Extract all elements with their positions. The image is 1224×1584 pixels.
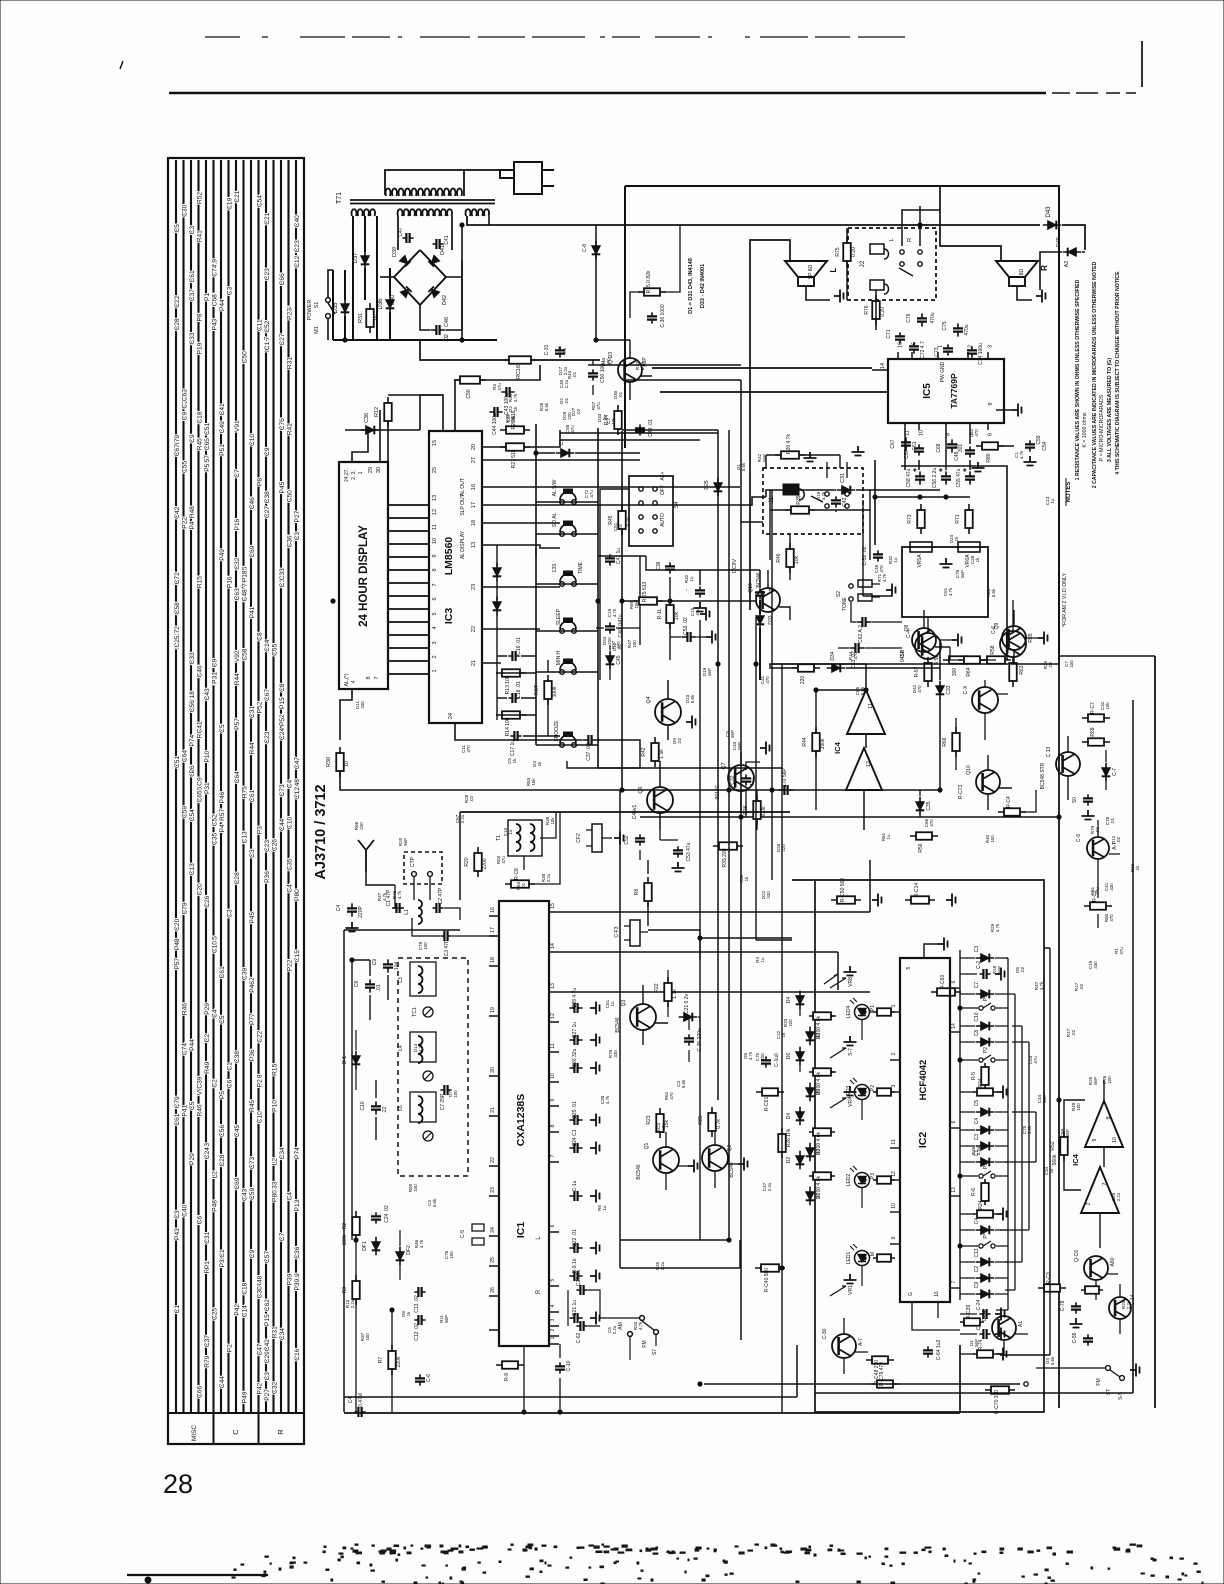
svg-text:C10: C10 bbox=[360, 1101, 366, 1110]
cap C-C31 .02 bbox=[559, 346, 561, 357]
resistor R-C39 bbox=[960, 1321, 984, 1323]
transistor Q7 bbox=[728, 765, 754, 791]
svg-text:R7: R7 bbox=[378, 1357, 384, 1364]
svg-text:C-62: C-62 bbox=[576, 1332, 582, 1343]
resistor R75 bbox=[846, 237, 848, 267]
svg-text:100: 100 bbox=[760, 1053, 765, 1061]
svg-text:R49: R49 bbox=[204, 1061, 211, 1073]
svg-text:C8: C8 bbox=[279, 683, 286, 692]
svg-text:VR5A: VR5A bbox=[917, 554, 923, 568]
svg-text:C9: C9 bbox=[249, 1249, 256, 1258]
svg-text:AM: AM bbox=[618, 1322, 624, 1330]
svg-text:.02: .02 bbox=[1116, 836, 1121, 843]
svg-text:1: 1 bbox=[891, 1004, 897, 1007]
transformer secondary winding 3 bbox=[466, 209, 490, 216]
svg-text:SNOOZE: SNOOZE bbox=[554, 720, 560, 742]
resistor R30 bbox=[339, 747, 341, 777]
svg-text:P22: P22 bbox=[286, 959, 293, 971]
svg-text:D39: D39 bbox=[392, 247, 398, 257]
svg-text:2.2u: 2.2u bbox=[563, 366, 568, 375]
right rail x1155 bbox=[1154, 656, 1156, 1408]
svg-text:1k: 1k bbox=[537, 761, 542, 766]
svg-text:P46: P46 bbox=[249, 981, 256, 993]
svg-text:TIME: TIME bbox=[578, 561, 584, 574]
component location table frame bbox=[168, 158, 304, 1444]
svg-text:R41: R41 bbox=[196, 230, 203, 242]
capacitor C70 on rail bbox=[778, 789, 793, 791]
svg-text:16: 16 bbox=[898, 342, 904, 348]
svg-text:C6: C6 bbox=[196, 1216, 203, 1225]
svg-text:FM: FM bbox=[1096, 1378, 1102, 1385]
bridge bottom wire bbox=[420, 305, 430, 330]
svg-text:.01: .01 bbox=[564, 397, 569, 404]
svg-text:C1: C1 bbox=[559, 439, 565, 446]
svg-text:C56 2.2u: C56 2.2u bbox=[932, 468, 938, 489]
resistor R35 and cap C42 bbox=[785, 509, 815, 511]
svg-text:C39: C39 bbox=[196, 1076, 203, 1088]
svg-text:8: 8 bbox=[366, 676, 372, 679]
svg-text:C58 47u: C58 47u bbox=[906, 468, 912, 487]
svg-text:D1: D1 bbox=[816, 1193, 822, 1200]
svg-text:M: M bbox=[870, 1252, 876, 1256]
svg-text:220: 220 bbox=[607, 637, 612, 645]
svg-text:C51: C51 bbox=[174, 756, 181, 768]
svg-text:C4: C4 bbox=[286, 779, 293, 788]
svg-text:P57: P57 bbox=[234, 718, 241, 730]
svg-text:.01: .01 bbox=[1095, 826, 1100, 833]
svg-text:C-24: C-24 bbox=[976, 1299, 982, 1310]
resistor R66 bbox=[955, 727, 957, 757]
svg-text:C-5: C-5 bbox=[460, 1230, 466, 1238]
svg-text:C32: C32 bbox=[730, 775, 736, 784]
svg-text:T1: T1 bbox=[496, 835, 502, 841]
svg-text:C74: C74 bbox=[211, 264, 218, 276]
capacitor C57 pin10 bbox=[918, 444, 920, 455]
cap C-C36 1000 bbox=[651, 312, 653, 323]
resistor R75b 513 bbox=[633, 600, 663, 602]
svg-text:C40: C40 bbox=[181, 1204, 188, 1216]
capacitor C18 .01 bbox=[508, 697, 519, 699]
svg-text:R15 0.82k: R15 0.82k bbox=[646, 270, 652, 293]
svg-text:5.6k: 5.6k bbox=[1050, 1356, 1055, 1365]
svg-text:.01: .01 bbox=[617, 643, 622, 650]
diode C31 bbox=[837, 489, 856, 491]
capacitor C41 bbox=[432, 243, 443, 245]
svg-text:12: 12 bbox=[891, 1171, 897, 1177]
svg-text:56P: 56P bbox=[737, 742, 742, 750]
wire bus below transformer bbox=[333, 339, 497, 341]
scatter clutter labels bbox=[702, 667, 712, 676]
svg-text:.02: .02 bbox=[1048, 661, 1053, 668]
right rail x1133 bbox=[1132, 700, 1134, 1300]
vertical rail x598 bbox=[597, 428, 599, 768]
svg-text:G: G bbox=[908, 1292, 914, 1296]
transistor Q3 af bbox=[630, 1004, 656, 1030]
capacitor C41b bbox=[609, 554, 611, 565]
svg-text:A2: A2 bbox=[1064, 261, 1070, 268]
diode DF2 bbox=[399, 1247, 401, 1266]
svg-text:C52: C52 bbox=[624, 835, 630, 844]
capacitor C4 220P bbox=[351, 903, 353, 916]
svg-text:C7 25P: C7 25P bbox=[440, 1093, 446, 1110]
svg-text:S1: S1 bbox=[314, 302, 320, 309]
svg-text:P80: P80 bbox=[271, 1190, 278, 1202]
svg-text:D33 - D42 IN4001: D33 - D42 IN4001 bbox=[700, 264, 706, 308]
transformer secondary winding 2 bbox=[398, 209, 453, 216]
svg-text:C36: C36 bbox=[364, 413, 370, 423]
svg-text:SLEEP: SLEEP bbox=[556, 608, 562, 625]
svg-text:6: 6 bbox=[432, 597, 438, 600]
svg-text:LM8560: LM8560 bbox=[443, 537, 455, 576]
svg-text:C45: C45 bbox=[234, 1125, 241, 1137]
svg-text:16: 16 bbox=[490, 907, 496, 913]
svg-text:1k: 1k bbox=[975, 557, 980, 562]
svg-text:1.5k: 1.5k bbox=[659, 749, 665, 759]
speaker L bbox=[785, 261, 827, 277]
capacitor C37 bbox=[582, 739, 597, 741]
svg-text:5.6k: 5.6k bbox=[991, 588, 996, 597]
resistor R12 bbox=[387, 397, 389, 427]
IC1 bottom caps bbox=[559, 1362, 561, 1373]
svg-text:C41: C41 bbox=[219, 403, 226, 415]
svg-text:C33: C33 bbox=[279, 568, 286, 580]
svg-text:330: 330 bbox=[1093, 961, 1098, 969]
svg-text:C56: C56 bbox=[219, 1125, 226, 1137]
svg-text:C58: C58 bbox=[241, 648, 248, 660]
svg-text:300: 300 bbox=[952, 668, 958, 677]
transistor Q16 BC546 bbox=[756, 588, 780, 612]
svg-text:C63: C63 bbox=[181, 389, 188, 401]
wires jack to speaker bbox=[847, 206, 940, 330]
svg-text:C18: C18 bbox=[241, 1282, 248, 1294]
svg-text:C40: C40 bbox=[294, 215, 301, 227]
capacitor C36b bbox=[669, 562, 671, 573]
IC5 pin row bottom bbox=[904, 423, 906, 430]
svg-text:2.2u: 2.2u bbox=[660, 1261, 665, 1270]
svg-text:100: 100 bbox=[632, 640, 637, 648]
svg-text:MISC: MISC bbox=[191, 1425, 198, 1442]
svg-text:C3: C3 bbox=[974, 1134, 980, 1141]
svg-text:DC9V: DC9V bbox=[732, 559, 738, 573]
svg-text:.01: .01 bbox=[562, 347, 567, 354]
svg-text:2 CAPACITANCE VALUES ARE INDI: 2 CAPACITANCE VALUES ARE INDICATED IN MI… bbox=[1092, 262, 1098, 489]
svg-text:C52: C52 bbox=[211, 814, 218, 826]
svg-text:IC4: IC4 bbox=[1071, 1153, 1080, 1166]
svg-text:C49 .01: C49 .01 bbox=[648, 419, 654, 437]
svg-text:C67: C67 bbox=[174, 444, 181, 456]
svg-text:1: 1 bbox=[938, 345, 944, 348]
resistor R26b bbox=[781, 1128, 783, 1158]
svg-text:56P: 56P bbox=[1065, 1129, 1070, 1137]
switch SLEEP bbox=[536, 630, 598, 632]
svg-text:C22: C22 bbox=[174, 295, 181, 307]
svg-text:C68: C68 bbox=[936, 443, 942, 452]
svg-text:47u: 47u bbox=[589, 490, 594, 498]
bottom mid components bbox=[871, 1383, 899, 1385]
svg-text:10k: 10k bbox=[794, 555, 800, 564]
wire IC3 pin21 bbox=[482, 662, 501, 664]
resistor R2 100k bbox=[355, 1211, 357, 1241]
svg-text:C35: C35 bbox=[926, 801, 932, 810]
transistor Q17 right bbox=[1109, 1297, 1131, 1319]
svg-text:P51: P51 bbox=[219, 444, 226, 456]
svg-text:P*: P* bbox=[983, 1233, 989, 1238]
svg-text:P8: P8 bbox=[256, 478, 263, 486]
svg-text:V92: V92 bbox=[234, 650, 241, 662]
svg-text:P80: P80 bbox=[294, 889, 301, 901]
svg-text:C61: C61 bbox=[174, 1113, 181, 1125]
svg-text:1k: 1k bbox=[1049, 1168, 1054, 1173]
preset section frame bbox=[792, 880, 1044, 1412]
svg-text:56P: 56P bbox=[444, 1315, 449, 1323]
svg-text:15: 15 bbox=[912, 342, 918, 348]
svg-text:P36: P36 bbox=[249, 1049, 256, 1061]
svg-text:S7: S7 bbox=[652, 1349, 658, 1355]
capacitor C76 470u bbox=[921, 313, 923, 326]
svg-text:CF2: CF2 bbox=[576, 833, 582, 843]
svg-text:4.7k: 4.7k bbox=[418, 1043, 423, 1052]
svg-text:L3: L3 bbox=[398, 977, 404, 983]
svg-text:P49: P49 bbox=[241, 1391, 248, 1403]
capacitor C-C25 bbox=[688, 1034, 690, 1045]
svg-text:17: 17 bbox=[471, 502, 477, 508]
svg-text:1k: 1k bbox=[511, 415, 516, 420]
wire IC1 pin14 bbox=[559, 952, 838, 990]
tone section box bbox=[902, 547, 988, 617]
svg-text:R44: R44 bbox=[802, 737, 808, 746]
svg-text:C-78: C-78 bbox=[1060, 1300, 1066, 1311]
svg-text:4.7k: 4.7k bbox=[1039, 981, 1044, 990]
svg-text:C53 .02: C53 .02 bbox=[683, 617, 689, 635]
svg-text:C62: C62 bbox=[264, 1299, 271, 1311]
svg-text:C-2: C-2 bbox=[976, 961, 982, 969]
svg-text:13: 13 bbox=[471, 542, 477, 548]
speaker R wires bbox=[940, 186, 1001, 262]
svg-text:12: 12 bbox=[866, 761, 872, 767]
svg-text:5.6k: 5.6k bbox=[741, 462, 746, 471]
svg-text:R15: R15 bbox=[271, 1063, 278, 1075]
svg-text:D35: D35 bbox=[333, 302, 339, 314]
svg-text:C26 32u: C26 32u bbox=[572, 1048, 578, 1067]
svg-text:P74: P74 bbox=[189, 735, 196, 747]
svg-text:390k: 390k bbox=[820, 738, 826, 749]
IC3 clock chip box bbox=[429, 431, 482, 723]
svg-text:R-C50 560: R-C50 560 bbox=[840, 878, 846, 902]
svg-text:L6: L6 bbox=[398, 1105, 404, 1111]
svg-text:IC1: IC1 bbox=[264, 341, 271, 352]
transistor Q8 bbox=[912, 628, 936, 652]
svg-text:47u: 47u bbox=[497, 383, 502, 391]
wire IC3 SLP OUT 17 bbox=[482, 497, 766, 505]
svg-text:D36: D36 bbox=[378, 298, 384, 310]
svg-text:C72 4.7: C72 4.7 bbox=[920, 341, 926, 359]
capacitor C-C26 1u bbox=[765, 1056, 767, 1067]
svg-text:FM: FM bbox=[642, 1340, 648, 1347]
bridge rectifier frame bbox=[398, 216, 452, 250]
svg-text:C5: C5 bbox=[189, 1101, 196, 1110]
capacitor C62 tone bbox=[856, 621, 871, 623]
capacitor C63 tone bbox=[849, 647, 864, 649]
svg-text:C5: C5 bbox=[219, 1015, 226, 1024]
coil L3 osc bbox=[418, 966, 423, 993]
svg-text:LED1: LED1 bbox=[846, 1252, 852, 1265]
capacitor C17 1u bbox=[510, 735, 521, 737]
svg-text:13: 13 bbox=[432, 495, 438, 501]
svg-text:3: 3 bbox=[891, 1084, 897, 1087]
svg-text:D43: D43 bbox=[1046, 206, 1052, 218]
svg-text:10k: 10k bbox=[1105, 702, 1110, 710]
bridge diode D40 bbox=[394, 277, 420, 305]
cap C78 bottom right bbox=[1075, 1302, 1077, 1313]
svg-text:9: 9 bbox=[891, 1236, 897, 1239]
svg-text:5.6k: 5.6k bbox=[640, 361, 645, 370]
resistor R-C70 370 bbox=[985, 1389, 1015, 1391]
capacitor C72 bbox=[913, 342, 915, 353]
buttons right rail bbox=[639, 556, 641, 645]
scan noise bottom-left dot bbox=[145, 1577, 151, 1583]
svg-text:47u: 47u bbox=[1119, 947, 1124, 955]
capacitor CF3 bbox=[630, 920, 640, 946]
svg-text:220: 220 bbox=[1042, 1095, 1047, 1103]
svg-text:C64: C64 bbox=[181, 750, 188, 762]
svg-text:C41: C41 bbox=[444, 235, 450, 244]
svg-text:5: 5 bbox=[906, 966, 912, 969]
svg-text:L: L bbox=[829, 267, 838, 272]
svg-text:7: 7 bbox=[1102, 1182, 1108, 1185]
svg-text:220: 220 bbox=[781, 844, 786, 852]
svg-text:IC4: IC4 bbox=[833, 741, 842, 754]
svg-text:56P: 56P bbox=[974, 1339, 979, 1347]
scan blue pen line bbox=[127, 1574, 268, 1576]
svg-text:BC546: BC546 bbox=[636, 1164, 642, 1180]
diode D35 bbox=[344, 270, 346, 300]
svg-text:C12: C12 bbox=[294, 787, 301, 799]
svg-text:21: 21 bbox=[490, 1107, 496, 1113]
IC1 right side caps chain bbox=[569, 1007, 582, 1009]
svg-text:9: 9 bbox=[550, 1098, 556, 1101]
svg-text:C55: C55 bbox=[181, 461, 188, 473]
resistor RT2 bbox=[1012, 657, 1014, 687]
svg-text:D33: D33 bbox=[768, 615, 774, 624]
svg-text:Q8: Q8 bbox=[904, 624, 910, 631]
cap C50b 100u bbox=[592, 369, 594, 380]
svg-text:IC3: IC3 bbox=[443, 608, 455, 625]
resistor R-C50 top bbox=[454, 379, 486, 381]
svg-text:C9: C9 bbox=[189, 434, 196, 443]
svg-text:C2 47P: C2 47P bbox=[438, 887, 444, 904]
resistor R58t bbox=[981, 659, 1011, 661]
resistor R56 bias bbox=[910, 835, 938, 837]
svg-text:C55 47u: C55 47u bbox=[956, 468, 962, 487]
antenna bbox=[358, 840, 374, 872]
svg-text:11: 11 bbox=[550, 1043, 556, 1048]
svg-text:C8: C8 bbox=[974, 1030, 980, 1037]
svg-text:.02: .02 bbox=[1020, 966, 1025, 973]
svg-text:0.47M: 0.47M bbox=[358, 1393, 364, 1407]
svg-text:C24: C24 bbox=[204, 1147, 211, 1159]
svg-text:AL+: AL+ bbox=[660, 471, 666, 480]
svg-text:.01: .01 bbox=[1110, 817, 1115, 824]
svg-text:M1: M1 bbox=[314, 326, 320, 334]
LED resistor r-led1 bbox=[873, 1011, 895, 1013]
svg-text:4.7k: 4.7k bbox=[948, 587, 953, 596]
svg-text:C26: C26 bbox=[271, 839, 278, 851]
svg-text:560k: 560k bbox=[1052, 1154, 1058, 1165]
svg-text:R44: R44 bbox=[249, 742, 256, 754]
svg-text:0.20: 0.20 bbox=[880, 307, 886, 317]
matrix nested rails bbox=[1008, 958, 1036, 1310]
svg-text:C9: C9 bbox=[372, 959, 378, 966]
resistor network right of rail bbox=[998, 811, 1026, 813]
svg-text:5.6k: 5.6k bbox=[1027, 1125, 1032, 1134]
svg-text:C30: C30 bbox=[181, 204, 188, 216]
svg-text:C35: C35 bbox=[211, 833, 218, 845]
svg-text:POWER: POWER bbox=[307, 300, 313, 321]
svg-text:C3 47P: C3 47P bbox=[444, 939, 450, 956]
svg-text:R76: R76 bbox=[864, 305, 870, 314]
wire IC3 AL OUT 16 bbox=[482, 486, 740, 488]
svg-text:C: C bbox=[231, 1429, 240, 1435]
svg-text:C61: C61 bbox=[189, 270, 196, 282]
svg-text:C4: C4 bbox=[286, 1192, 293, 1201]
svg-text:4.5v: 4.5v bbox=[934, 655, 940, 665]
svg-text:4.7k: 4.7k bbox=[638, 1321, 643, 1330]
svg-text:C3: C3 bbox=[249, 849, 256, 858]
svg-text:C1: C1 bbox=[226, 1062, 233, 1071]
resistor R24 15k bbox=[711, 1107, 713, 1137]
svg-text:C27 1u: C27 1u bbox=[572, 1022, 578, 1038]
svg-text:P57: P57 bbox=[174, 958, 181, 970]
svg-text:R66: R66 bbox=[942, 737, 948, 746]
diode D34 on rail bbox=[827, 667, 846, 669]
display-IC3 interconnect wires bbox=[388, 505, 429, 674]
resistors R73 R71 bbox=[920, 504, 922, 534]
capacitor C74 100u bbox=[971, 346, 973, 357]
slide switch S2 TONE bbox=[849, 584, 853, 588]
svg-text:5.6k: 5.6k bbox=[432, 1198, 437, 1207]
svg-text:C33: C33 bbox=[189, 652, 196, 664]
diode C31b bbox=[556, 452, 575, 454]
matrix right rail bbox=[1000, 948, 1050, 1355]
svg-text:P45: P45 bbox=[279, 481, 286, 493]
svg-text:D37: D37 bbox=[353, 252, 359, 264]
svg-text:R75: R75 bbox=[241, 786, 248, 798]
capacitor C32 47u bbox=[745, 774, 747, 785]
resistor R44 390k bbox=[815, 727, 817, 757]
svg-text:47u: 47u bbox=[853, 652, 858, 660]
svg-text:14: 14 bbox=[880, 363, 886, 369]
svg-text:330: 330 bbox=[613, 1050, 618, 1058]
mid rail top connects bbox=[588, 365, 741, 430]
svg-text:C3: C3 bbox=[264, 1372, 271, 1381]
svg-text:C4: C4 bbox=[211, 1009, 218, 1018]
24 hour display block bbox=[339, 462, 388, 689]
svg-text:R31: R31 bbox=[271, 1326, 278, 1338]
jack J2 box bbox=[848, 228, 936, 300]
svg-text:C65: C65 bbox=[204, 438, 211, 450]
capacitor C52 left bbox=[877, 550, 879, 561]
svg-text:10: 10 bbox=[919, 430, 925, 436]
switch S7 AM FM bbox=[640, 1316, 645, 1321]
svg-text:C6: C6 bbox=[226, 1079, 233, 1088]
svg-text:Q6: Q6 bbox=[638, 786, 644, 793]
svg-text:5.6k: 5.6k bbox=[690, 694, 695, 703]
resistor R67 bbox=[1082, 717, 1110, 719]
display bottom wire bbox=[340, 689, 352, 740]
svg-text:R26 10k: R26 10k bbox=[786, 1128, 792, 1147]
svg-text:C13: C13 bbox=[974, 1248, 980, 1257]
svg-text:P43: P43 bbox=[211, 319, 218, 331]
